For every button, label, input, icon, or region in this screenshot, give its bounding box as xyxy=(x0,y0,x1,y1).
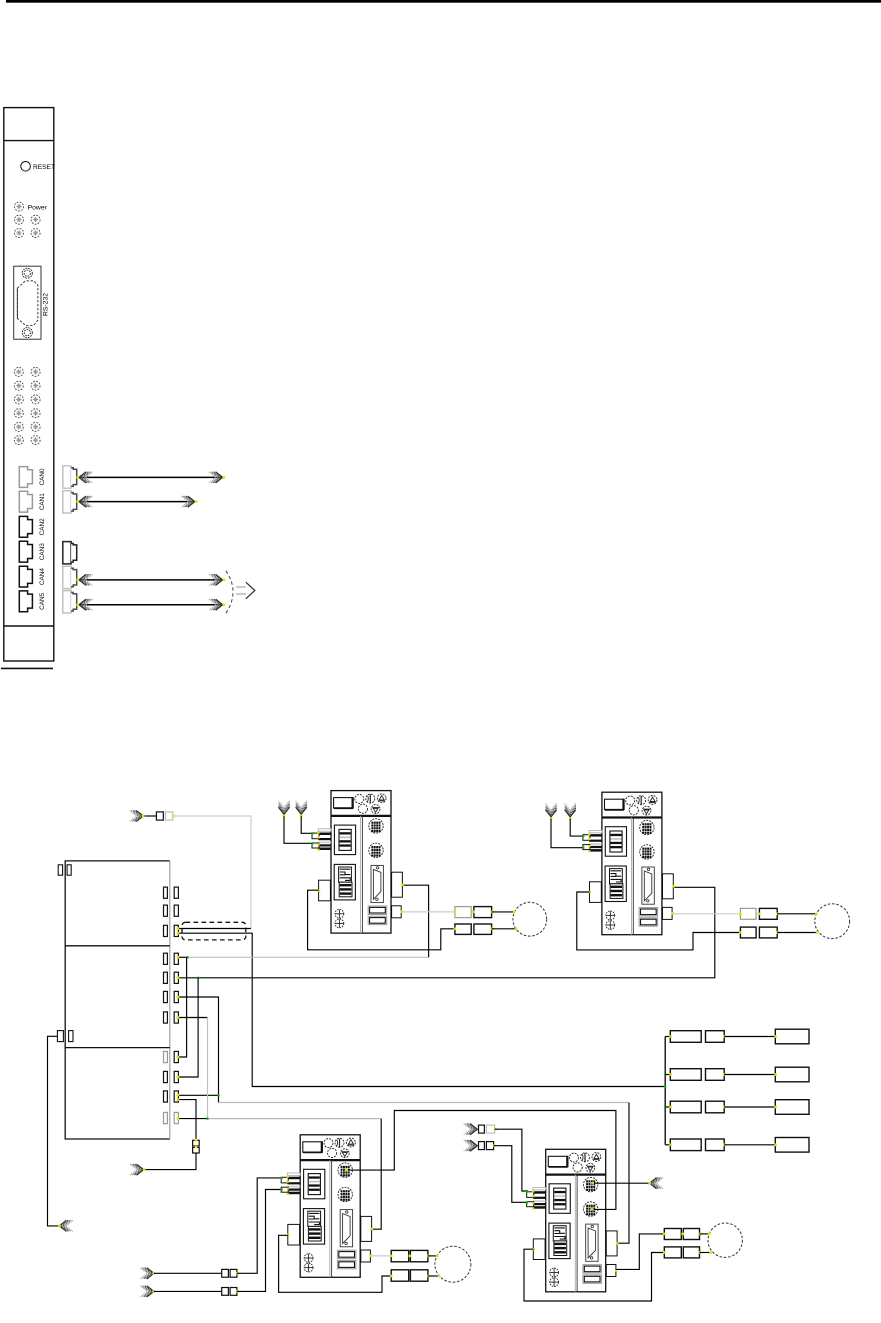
wire rack b2r2 to drive U2 CN2 xyxy=(178,887,715,978)
CAN5 cable plug xyxy=(63,591,77,613)
wire supply to U1 upper xyxy=(301,816,312,833)
status LED 1 xyxy=(15,215,24,224)
wire U4 motor power xyxy=(616,1234,665,1270)
CAN LED row 0 left xyxy=(14,367,23,376)
RS-232 bottom screw xyxy=(22,328,32,338)
wire U3 pair2 to motor M3 xyxy=(428,1275,440,1277)
bus row 3 stub xyxy=(665,1106,670,1108)
inline connector U3 pair1 A xyxy=(391,1250,409,1261)
CAN5 jack xyxy=(19,591,32,612)
junction b3r3 xyxy=(217,1094,219,1096)
status LED 4 xyxy=(31,229,40,238)
servo drive U2 xyxy=(583,792,675,935)
motor M1 xyxy=(513,902,547,936)
junction b2r1 xyxy=(187,956,189,958)
config cable chevron xyxy=(130,811,143,822)
motor M2 xyxy=(815,904,850,939)
CAN1 cable plug xyxy=(63,491,77,513)
svg-text:Power: Power xyxy=(28,204,48,211)
rack slot b1r3 outer tab xyxy=(174,925,178,936)
node 2 terminator xyxy=(775,1067,809,1082)
service inline connector A xyxy=(193,1140,200,1146)
CAN bus cable conductor 2 to splitter bus xyxy=(178,933,665,1086)
rack slot b2r1 inner tab xyxy=(164,953,168,964)
encoder chevron U4-b xyxy=(464,1140,477,1151)
wire b2r1 to b3r1 xyxy=(178,957,186,1057)
status LED 3 xyxy=(15,229,24,238)
rack slot b3r3 outer tab xyxy=(174,1091,178,1102)
controller front panel outline xyxy=(4,108,54,661)
rack slot b3r2 outer tab xyxy=(174,1071,178,1082)
wire U3 brake loop to motor pair 2 xyxy=(279,1235,392,1292)
RS-232 D-sub body xyxy=(17,281,38,326)
encoder chevron U3-b xyxy=(140,1286,153,1297)
node 2 connector A xyxy=(670,1069,701,1081)
inline connector U4 pair2 B xyxy=(683,1247,699,1258)
CAN LED row 4 right xyxy=(31,422,40,431)
bus junction 2 xyxy=(664,1085,666,1087)
wire supply to U1 lower xyxy=(284,816,312,843)
CAN5 cable wire xyxy=(78,604,222,606)
CAN0 cable wire head chevron xyxy=(209,472,222,483)
wire encoder U3 lower xyxy=(154,1290,222,1292)
servo drive U3 xyxy=(281,1135,373,1278)
wire b3r4 stub xyxy=(178,1118,207,1120)
rack slot b2r2 outer tab xyxy=(174,972,178,983)
CAN3 cable plug xyxy=(63,542,77,564)
dashed cable marker box xyxy=(182,922,246,940)
bus row 4 wire xyxy=(724,1144,775,1146)
encoder inline connector U4-a2 xyxy=(486,1125,494,1133)
wire drive U1 CN2 drop xyxy=(402,885,428,957)
CAN LED row 3 right xyxy=(31,409,40,418)
CAN3 jack xyxy=(19,541,32,562)
service inline connector B xyxy=(193,1147,200,1153)
encoder inline connector U3-b2 xyxy=(230,1288,237,1296)
config cable gray run xyxy=(173,816,251,928)
CAN0 jack xyxy=(19,467,32,488)
supply chevron U2-a xyxy=(546,803,557,816)
wire U1 motor power (gray) xyxy=(402,911,455,913)
rack slot b2r2 inner tab xyxy=(164,972,168,983)
inline connector U1 pair1 B xyxy=(474,907,492,918)
svg-text:CAN4: CAN4 xyxy=(39,568,46,585)
node 4 connector A xyxy=(670,1139,701,1151)
panel top section divider xyxy=(4,140,54,142)
inline connector U1 pair1 A xyxy=(455,907,471,918)
CAN4 jack xyxy=(19,566,32,587)
CAN4 cable wire tail chevron xyxy=(79,574,92,585)
wire b2r4 drop (gray) xyxy=(207,1018,209,1119)
wire U3 pair1 to motor M3 xyxy=(428,1255,437,1257)
external link chevron xyxy=(59,1220,72,1231)
panel bottom section divider xyxy=(4,625,54,627)
inline connector U4 pair2 A xyxy=(664,1247,681,1258)
CAN5 cable wire tail chevron xyxy=(79,599,92,610)
wire to drive U3 (gray) xyxy=(208,1118,382,1120)
servo drive U1 xyxy=(312,791,404,934)
wire U4 brake loop to motor pair 2 xyxy=(524,1249,664,1301)
RESET button xyxy=(21,162,31,172)
encoder chevron U3-a xyxy=(140,1268,153,1279)
rack slot b1r1 inner tab xyxy=(164,887,168,898)
CAN4 cable plug xyxy=(63,566,77,588)
wire rack b2r1 stub xyxy=(178,956,187,958)
bus row 3 wire xyxy=(724,1106,775,1108)
bus junction 1 xyxy=(664,1073,666,1075)
CAN bus cable conductor 1 xyxy=(178,928,251,930)
wire encoder U3 upper xyxy=(154,1272,222,1274)
encoder inline connector U3-b1 xyxy=(222,1288,229,1296)
bus row 2 stub xyxy=(665,1074,670,1076)
svg-text:RS-232: RS-232 xyxy=(43,293,50,316)
CAN1 cable wire xyxy=(78,501,195,503)
bus row 4 stub xyxy=(665,1144,670,1146)
CAN LED row 1 left xyxy=(14,381,23,390)
CAN4 cable wire head chevron xyxy=(209,574,222,585)
wire U2 brake loop to motor pair 2 xyxy=(577,892,741,950)
inline connector U1 pair2 B xyxy=(474,924,492,934)
CAN1 jack xyxy=(19,491,32,512)
rack mid-left tab A xyxy=(57,1031,63,1042)
node 3 terminator xyxy=(775,1100,809,1115)
wire rack b2r4 stub xyxy=(178,1017,207,1019)
panel base line xyxy=(1,667,53,669)
wire rack b2r3 drop xyxy=(178,997,218,1103)
CAN2 jack xyxy=(19,516,32,537)
splitter bus xyxy=(664,1037,666,1145)
rack top-left tab B xyxy=(67,865,71,875)
wire encoder U3 upper run xyxy=(237,1178,281,1273)
rack divider 2 xyxy=(65,1047,170,1049)
wire b3r3 to service connector xyxy=(178,1100,196,1141)
inline connector U2 pair1 A xyxy=(740,908,756,919)
inline connector U3 pair2 A xyxy=(391,1270,409,1281)
CAN LED row 5 left xyxy=(14,436,23,445)
wire U1 pair2 to motor M1 xyxy=(492,928,517,930)
wire U4 link out xyxy=(594,1182,649,1184)
wire U2 pair2 to motor M2 xyxy=(777,932,817,934)
rack slot b1r2 outer tab xyxy=(174,905,178,916)
bus row 1 wire xyxy=(724,1036,775,1038)
rack slot b3r4 outer tab xyxy=(174,1112,178,1123)
CAN LED row 5 right xyxy=(31,436,40,445)
config cable wire at controller xyxy=(143,815,156,817)
CAN1 cable wire tail chevron xyxy=(79,496,92,507)
bus junction 3 xyxy=(664,1106,666,1108)
supply chevron U1-b xyxy=(296,801,307,814)
encoder inline connector U4-b2 xyxy=(486,1142,493,1150)
rack slot b2r3 outer tab xyxy=(174,991,178,1002)
supply chevron U1-a xyxy=(279,801,290,814)
wire U3 motor power (gray) xyxy=(372,1255,391,1257)
bus row 2 wire xyxy=(724,1074,775,1076)
CAN0 cable plug xyxy=(63,466,77,488)
wire U1 pair1 to motor M1 xyxy=(492,911,515,913)
encoder inline connector U4-b1 xyxy=(479,1142,485,1150)
encoder inline connector U3-a2 xyxy=(230,1269,237,1277)
wire link U3 to U4 xyxy=(348,1111,616,1210)
CAN LED row 2 left xyxy=(14,395,23,404)
node 1 connector A xyxy=(670,1031,701,1043)
rack slot b2r4 outer tab xyxy=(174,1012,178,1023)
wire drive U4 CN2 drop xyxy=(616,1103,629,1244)
rack slot b3r1 inner tab xyxy=(164,1051,168,1062)
CAN LED row 3 left xyxy=(14,409,23,418)
wire encoder U3 lower run xyxy=(237,1190,281,1292)
node 4 terminator xyxy=(775,1138,809,1153)
service chevron xyxy=(130,1164,143,1175)
wire U4 pair1 to motor M4 xyxy=(700,1233,710,1235)
CAN4/CAN5 grouping arc xyxy=(226,571,233,614)
encoder inline connector U3-a1 xyxy=(222,1269,229,1277)
rack slot b3r1 outer tab xyxy=(174,1051,178,1062)
svg-text:RESET: RESET xyxy=(33,164,55,171)
svg-text:CAN1: CAN1 xyxy=(39,493,46,510)
CAN LED row 2 right xyxy=(31,395,40,404)
wire service connector to chevron xyxy=(145,1153,196,1170)
wire b2r3 to drive U4 (gray) xyxy=(219,1102,630,1104)
CAN0 cable wire xyxy=(78,476,222,478)
CAN LED row 1 right xyxy=(31,381,40,390)
node 3 connector B xyxy=(706,1101,725,1113)
wire encoder U4 upper run xyxy=(495,1129,527,1191)
junction b2r2 xyxy=(197,977,199,979)
inline connector U4 pair1 B xyxy=(683,1229,699,1240)
rack outline xyxy=(65,861,170,1139)
node 1 terminator xyxy=(775,1029,809,1044)
rack slot b1r1 outer tab xyxy=(174,887,178,898)
svg-text:CAN5: CAN5 xyxy=(39,592,46,609)
motor M3 xyxy=(435,1246,471,1282)
inline connector U2 pair2 B xyxy=(759,927,777,938)
inline connector U1 pair2 A xyxy=(455,924,471,934)
rack top-left tab A xyxy=(58,865,62,875)
rack slot b2r1 outer tab xyxy=(174,953,178,964)
config inline connector B xyxy=(165,812,172,820)
CAN LED row 4 left xyxy=(14,422,23,431)
rack slot b2r3 inner tab xyxy=(164,991,168,1002)
RS-232 connector bezel xyxy=(14,266,41,339)
node 3 connector A xyxy=(670,1101,701,1113)
config inline connector A xyxy=(156,812,163,820)
inline connector U2 pair1 B xyxy=(759,908,777,919)
CAN1 cable wire head chevron xyxy=(181,496,194,507)
page top rule xyxy=(6,0,881,3)
node 1 connector B xyxy=(706,1031,725,1043)
svg-text:CAN3: CAN3 xyxy=(39,543,46,560)
wire b3r3 to junction xyxy=(178,1094,218,1096)
wire drive U3 CN2 drop xyxy=(372,1119,381,1230)
wire rack b2r1 to drive U1 (gray) xyxy=(188,956,429,958)
encoder inline connector U4-a1 xyxy=(479,1125,485,1133)
wire supply to U2 upper xyxy=(570,819,583,836)
rack right edge xyxy=(169,861,171,1139)
rack slot b2r4 inner tab xyxy=(164,1012,168,1023)
RS-232 top screw xyxy=(22,268,32,278)
wire U2 pair1 to motor M2 xyxy=(777,913,816,915)
CAN0 cable wire tail chevron xyxy=(79,472,92,483)
rack slot b1r2 inner tab xyxy=(164,905,168,916)
Power LED xyxy=(15,202,24,211)
wire supply to U2 lower xyxy=(551,819,583,848)
wire rack to external chevron xyxy=(48,1036,60,1226)
node 4 connector B xyxy=(706,1139,725,1151)
wire U2 motor power (gray) xyxy=(673,913,740,915)
supply chevron U2-b xyxy=(565,803,576,816)
CAN LED row 0 right xyxy=(31,367,40,376)
svg-text:CAN0: CAN0 xyxy=(39,468,46,485)
inline connector U3 pair2 B xyxy=(410,1270,428,1281)
rack divider 1 xyxy=(65,945,170,947)
junction b3r4 xyxy=(206,1118,208,1120)
wire U1 brake loop to motor pair 2 xyxy=(308,890,455,950)
node 2 connector B xyxy=(706,1069,725,1081)
inline connector U3 pair1 B xyxy=(410,1250,428,1261)
rack slot b3r2 inner tab xyxy=(164,1071,168,1082)
rack mid-left tab B xyxy=(69,1031,73,1042)
encoder chevron U4-a xyxy=(464,1124,477,1135)
CAN5 cable wire head chevron xyxy=(209,599,222,610)
inline connector U2 pair2 A xyxy=(740,927,756,938)
rack slot b1r3 inner tab xyxy=(164,925,168,936)
inline connector U4 pair1 A xyxy=(664,1229,681,1240)
motor M4 xyxy=(708,1223,742,1257)
wire b2r2 to b3r2 xyxy=(178,978,198,1077)
rack slot b3r3 inner tab xyxy=(164,1091,168,1102)
wire U4 pair2 to motor M4 xyxy=(700,1252,712,1254)
rack slot b3r4 inner tab xyxy=(164,1112,168,1123)
continuation arrow xyxy=(236,582,255,599)
status LED 2 xyxy=(31,215,40,224)
wire encoder U4 lower run xyxy=(494,1146,527,1203)
bus row 1 stub xyxy=(665,1036,670,1038)
servo drive U4 xyxy=(527,1149,619,1292)
U4 link chevron xyxy=(650,1178,663,1189)
CAN4 cable wire xyxy=(78,579,222,581)
svg-text:CAN2: CAN2 xyxy=(39,518,46,535)
